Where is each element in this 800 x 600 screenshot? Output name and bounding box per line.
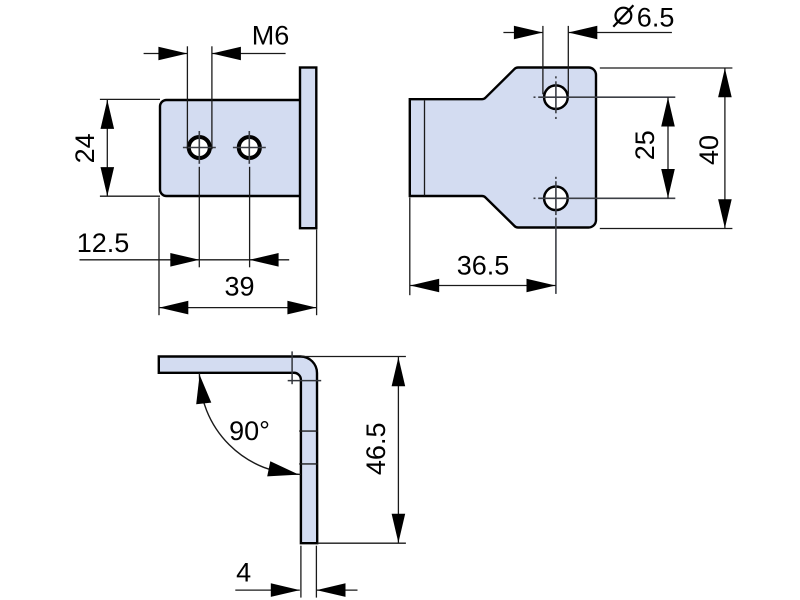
90 degree arc dimension	[199, 373, 301, 474]
svg-text:46.5: 46.5	[361, 423, 391, 476]
bracket front outline	[410, 67, 596, 227]
arc arrowhead lower	[267, 461, 299, 476]
svg-text:6.5: 6.5	[637, 2, 675, 32]
svg-text:25: 25	[630, 130, 660, 160]
projected bend edge lines on vertical arm	[299, 431, 318, 464]
hole H2 (M6, side view)	[238, 136, 261, 159]
hole H4 center lines	[534, 177, 676, 294]
svg-text:4: 4	[236, 557, 251, 587]
hole H1 (M6, side view)	[188, 136, 211, 159]
dimension 39 extension lines	[159, 198, 317, 316]
dimension 39 line + arrows	[159, 301, 317, 315]
svg-text:39: 39	[224, 272, 254, 302]
svg-text:24: 24	[70, 133, 100, 163]
dimension 25 line + arrows	[661, 97, 675, 198]
svg-text:36.5: 36.5	[457, 251, 510, 281]
dimension 36.5 extension line	[409, 198, 411, 296]
dimension D6.5 extension lines	[543, 26, 568, 94]
bend line (front view)	[424, 101, 426, 196]
dimension M6 extension lines	[187, 46, 212, 149]
svg-text:12.5: 12.5	[77, 228, 130, 258]
hole H1 crosshair	[183, 131, 216, 164]
dimension 24 line + arrows	[101, 100, 115, 196]
dimension 12.5 line + arrows	[80, 253, 290, 267]
dimension 24 extension lines	[100, 99, 160, 196]
bracket body plate (side view)	[160, 100, 301, 196]
svg-text:40: 40	[694, 135, 724, 165]
hole extension lines down to 12.5 dim	[199, 167, 249, 267]
dimension D6.5 line + arrows	[503, 26, 672, 40]
svg-text:90°: 90°	[229, 416, 270, 446]
L-profile outline	[159, 357, 317, 544]
dimension 46.5 extension lines	[301, 357, 406, 544]
hole H3 (front, top)	[544, 85, 568, 109]
label diameter 6.5	[613, 5, 633, 26]
bracket flange plate (side view, edge-on)	[300, 68, 316, 229]
dimension 46.5 line + arrows	[392, 357, 406, 543]
dimension M6 line + arrows	[144, 47, 286, 61]
dimension 40 extension lines	[600, 68, 733, 229]
arc arrowhead upper	[196, 375, 211, 405]
bend tangent marks	[288, 351, 322, 384]
dimension 4 line + arrows	[235, 583, 357, 597]
hole H4 (front, bottom)	[544, 187, 568, 211]
hole H3 center lines	[534, 76, 676, 119]
dimension 40 line + arrows	[718, 68, 732, 229]
svg-text:M6: M6	[252, 21, 290, 51]
hole H2 crosshair	[233, 131, 266, 164]
dimension 36.5 line + arrows	[410, 279, 556, 293]
dimension 4 extension lines	[301, 546, 317, 598]
